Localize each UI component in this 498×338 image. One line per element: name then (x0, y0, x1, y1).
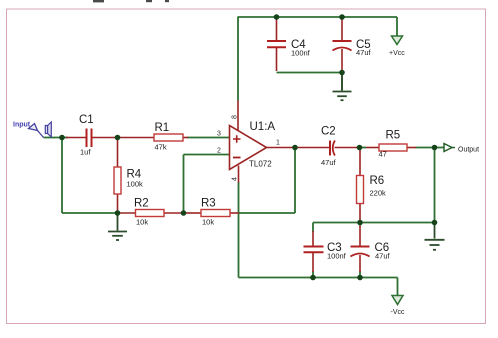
svg-text:2: 2 (217, 148, 221, 155)
svg-text:U1:A: U1:A (250, 121, 276, 133)
svg-text:R5: R5 (386, 130, 401, 142)
wire feedback horizontal (239, 212, 295, 214)
junction node left ground (115, 210, 121, 216)
junction node R2/R3/pin2 (181, 210, 187, 216)
capacitor C1 (66, 114, 117, 157)
speaker icon LS1 (45, 122, 51, 137)
svg-text:3: 3 (217, 131, 221, 138)
svg-text:47uf: 47uf (356, 48, 372, 57)
svg-text:TL072: TL072 (249, 160, 272, 169)
svg-text:+Vcc: +Vcc (389, 50, 405, 57)
capacitor C5 (333, 18, 372, 71)
svg-text:47k: 47k (155, 143, 167, 152)
junction node C1/R1/R4 (115, 135, 121, 141)
svg-text:Input: Input (13, 122, 31, 129)
junction node C5 bottom (339, 70, 345, 76)
wire input segment (44, 137, 69, 139)
junction node C6 bottom (357, 275, 363, 281)
op-amp U1:A (230, 121, 276, 170)
capacitor C2 (297, 126, 358, 168)
wire feedback vertical (294, 148, 296, 214)
svg-text:R6: R6 (370, 175, 385, 187)
svg-text:220k: 220k (370, 189, 387, 198)
capacitor C3 (304, 231, 347, 272)
capacitor C4 (267, 18, 311, 71)
wire mid-right rail (313, 222, 435, 224)
capacitor C6 (351, 225, 391, 272)
svg-text:1uf: 1uf (80, 148, 91, 157)
wire pin3 (187, 137, 230, 139)
wire -Vcc drop (397, 278, 399, 296)
terminal Input (13, 122, 44, 138)
wire +Vcc drop (396, 17, 398, 36)
svg-text:R2: R2 (134, 198, 149, 210)
ground left (108, 213, 127, 240)
svg-text:C2: C2 (321, 126, 336, 138)
resistor R1 (119, 122, 188, 152)
svg-text:100k: 100k (127, 180, 144, 189)
wire top V+ rail (238, 16, 397, 18)
wire left rail to ground junction (62, 212, 118, 214)
terminal Output (444, 144, 479, 154)
wire pin8 vertical (237, 17, 239, 101)
resistor R3 (185, 198, 239, 227)
wire output branch down (434, 148, 436, 223)
junction node R5/output (432, 145, 438, 151)
wire input branch down (61, 138, 63, 214)
svg-text:-Vcc: -Vcc (391, 309, 406, 316)
wire pin2 horizontal (184, 154, 231, 156)
power -Vcc (391, 296, 406, 317)
svg-text:1: 1 (276, 140, 280, 147)
svg-text:10k: 10k (136, 218, 148, 227)
wire R5 right green (416, 147, 445, 149)
wire C3 top drop (312, 223, 314, 233)
junction node opamp output (292, 145, 298, 151)
junction node right ground (432, 220, 438, 226)
junction node input (59, 135, 65, 141)
svg-text:C1: C1 (79, 114, 94, 126)
wire bottom -Vcc rail (239, 277, 398, 279)
wire C3 bottom green (312, 271, 314, 278)
svg-text:4: 4 (232, 177, 239, 181)
wire C6 bottom green (359, 271, 361, 278)
wire R5 left green (360, 147, 367, 149)
resistor R6 (357, 150, 387, 222)
ground mid (below C5) (333, 73, 352, 101)
junction node C5 top (339, 14, 345, 20)
svg-text:100nf: 100nf (291, 49, 311, 58)
junction node C3 bottom (310, 275, 316, 281)
op-amp U1 pin4 lead (238, 166, 240, 183)
svg-text:100nf: 100nf (327, 252, 347, 261)
svg-text:8: 8 (232, 115, 239, 119)
svg-text:Output: Output (458, 147, 479, 154)
resistor R4 (114, 139, 143, 212)
junction node R6 bottom (357, 220, 363, 226)
ground right (425, 223, 445, 250)
svg-text:47uf: 47uf (375, 252, 391, 261)
cropped title text sliver (93, 0, 169, 2)
wire pin2 vertical (183, 155, 185, 214)
power +Vcc (389, 36, 405, 57)
svg-text:10k: 10k (202, 218, 214, 227)
svg-text:47: 47 (379, 150, 387, 159)
wire pin4 vertical (238, 182, 240, 278)
wire C4-C5 lower rail (277, 72, 343, 74)
resistor R2 (119, 198, 182, 227)
junction node C4 top (274, 14, 280, 20)
op-amp U1 output lead (267, 147, 298, 149)
resistor R5 (366, 130, 416, 159)
svg-text:R1: R1 (155, 122, 170, 134)
op-amp U1 pin8 lead (237, 101, 239, 131)
svg-text:47uf: 47uf (321, 158, 337, 167)
junction node C2/R6 (357, 145, 363, 151)
svg-text:R3: R3 (201, 198, 216, 210)
wire mid ground drop (341, 73, 343, 91)
